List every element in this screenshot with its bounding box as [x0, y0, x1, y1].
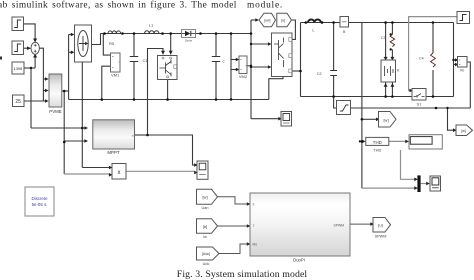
- svg-text:x: x: [118, 170, 121, 176]
- svg-text:S1: S1: [417, 102, 423, 107]
- svg-text:VM1: VM1: [111, 73, 120, 78]
- svg-text:C3: C3: [381, 36, 386, 40]
- svg-text:7: 7: [253, 224, 255, 228]
- svg-text:[b]: [b]: [203, 224, 207, 229]
- svg-text:[uw]: [uw]: [264, 19, 270, 23]
- svg-text:Diode: Diode: [185, 39, 193, 43]
- svg-text:Ms: Ms: [253, 243, 258, 247]
- svg-text:C1: C1: [143, 58, 149, 63]
- svg-text:[w]: [w]: [202, 195, 207, 200]
- svg-text:L: L: [312, 28, 315, 33]
- svg-text:K: K: [397, 69, 400, 73]
- svg-text:MPPT: MPPT: [107, 150, 120, 155]
- svg-text:THD: THD: [373, 140, 382, 145]
- svg-text:Uan: Uan: [202, 206, 209, 210]
- svg-text:DuoPI: DuoPI: [293, 258, 305, 263]
- svg-text:ab simulink software, as shown: ab simulink software, as shown in figure…: [0, 0, 237, 10]
- svg-text:[u]: [u]: [378, 223, 382, 228]
- svg-text:25: 25: [15, 99, 21, 105]
- svg-text:C2: C2: [317, 72, 322, 76]
- svg-text:Iw: Iw: [203, 235, 207, 239]
- svg-text:5e-05 s.: 5e-05 s.: [32, 202, 48, 207]
- svg-text:[w]: [w]: [383, 117, 388, 122]
- svg-text:Udc: Udc: [203, 262, 210, 266]
- svg-text:2: 2: [253, 203, 255, 207]
- svg-text:PVME: PVME: [49, 109, 62, 114]
- svg-text:L1: L1: [149, 23, 154, 28]
- svg-text:B: B: [343, 30, 346, 34]
- svg-text:1398: 1398: [14, 66, 23, 71]
- svg-text:R5: R5: [109, 41, 115, 46]
- svg-text:SPWM: SPWM: [375, 235, 387, 239]
- svg-text:[u]: [u]: [281, 19, 285, 23]
- svg-text:Discrete: Discrete: [31, 196, 48, 201]
- svg-text:SPWM: SPWM: [333, 224, 344, 228]
- svg-text:Fig. 3. System simulation mode: Fig. 3. System simulation model: [177, 269, 308, 280]
- svg-text:[Udc]: [Udc]: [202, 252, 210, 256]
- svg-text:THD: THD: [373, 147, 381, 152]
- svg-text:c: c: [223, 59, 225, 64]
- svg-text:[w]: [w]: [461, 129, 466, 133]
- svg-text:VM2: VM2: [239, 74, 248, 79]
- svg-text:C4: C4: [419, 57, 424, 61]
- svg-text:module.: module.: [247, 0, 283, 10]
- svg-text:Vb: Vb: [460, 69, 464, 73]
